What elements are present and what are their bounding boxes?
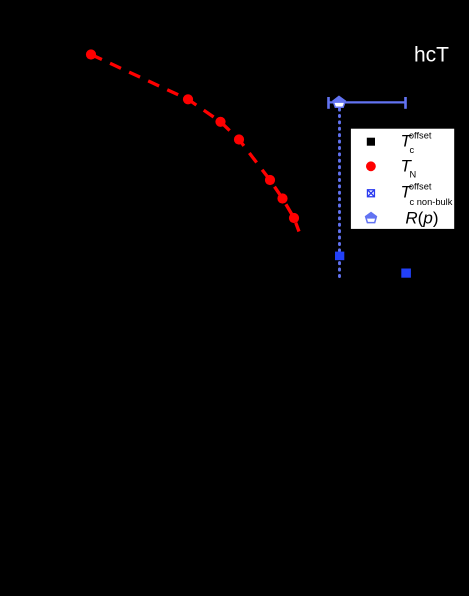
T_c offset non-bulk square marker on dotted line — [335, 252, 344, 261]
svg-text:c non-bulk: c non-bulk — [410, 197, 453, 207]
legend marker: black square for Tc offset — [367, 138, 375, 146]
T_N data markers (red circles) — [86, 49, 299, 223]
svg-text:hcT: hcT — [414, 43, 449, 66]
legend box — [351, 129, 454, 229]
legend label: Tc offset — [401, 131, 432, 156]
svg-text:offset: offset — [409, 181, 432, 191]
R(p) pentagon marker (top-half filled) — [333, 96, 345, 107]
svg-text:offset: offset — [409, 131, 432, 141]
legend label: Tc offset non-bulk — [401, 181, 453, 207]
svg-text:R(p): R(p) — [405, 209, 438, 228]
legend marker: blue pentagon for R(p) — [366, 213, 377, 223]
T_N red dashed phase-boundary curve — [91, 55, 299, 232]
T_c offset square marker (right) — [401, 269, 411, 278]
legend marker: red circle for T_N — [366, 161, 376, 171]
R(p) horizontal error bar — [329, 97, 406, 109]
svg-text:N: N — [410, 169, 417, 179]
legend marker: blue crossed square for Tc offset non-bulk — [367, 190, 374, 197]
svg-text:c: c — [410, 145, 415, 155]
legend label: T_N — [401, 157, 417, 180]
blue dotted vertical guide line — [338, 109, 341, 278]
